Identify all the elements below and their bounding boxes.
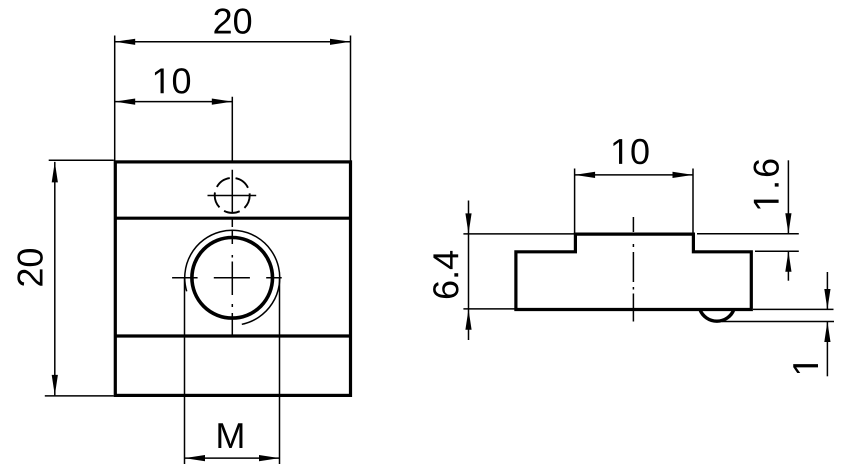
arrowhead bottom (pointing up) xyxy=(465,309,471,330)
extension line top xyxy=(49,159,114,161)
extension line bottom xyxy=(722,321,834,323)
dimension line upper xyxy=(787,160,789,233)
dimension M (thread size) xyxy=(185,278,280,464)
arrowhead upper (pointing down) xyxy=(785,213,791,234)
label 10 xyxy=(155,68,190,93)
hidden ball hole (dashed circle) xyxy=(215,178,250,213)
spring ball protrusion xyxy=(700,310,734,322)
dimension line xyxy=(115,41,351,43)
label 20 xyxy=(17,249,42,286)
horizontal centerline of thread hole xyxy=(172,277,282,279)
thread minor-diameter circle xyxy=(192,237,273,318)
dimension 20 (left height) xyxy=(17,160,113,396)
dimension line xyxy=(468,201,470,341)
extension line right xyxy=(350,36,352,161)
arrowhead lower (pointing up) xyxy=(785,251,791,272)
extension line left xyxy=(114,36,116,161)
arrowhead right xyxy=(673,172,694,178)
dimension line lower xyxy=(787,251,789,281)
arrowhead left xyxy=(115,39,136,45)
T-nut profile outline xyxy=(516,234,751,309)
thread major-diameter arc xyxy=(185,230,280,324)
dimension 20 (top width) xyxy=(115,8,351,160)
label 10 xyxy=(613,139,648,164)
dimension 10 (hole offset) xyxy=(115,68,233,105)
extension line right xyxy=(279,278,281,464)
label 1 xyxy=(793,364,818,373)
arrowhead right xyxy=(330,39,351,45)
dimension line xyxy=(115,101,233,103)
upper slot shoulder edge xyxy=(115,217,350,220)
extension line left xyxy=(184,278,186,464)
arrowhead left xyxy=(575,172,596,178)
extension line top xyxy=(463,233,574,235)
dimension line xyxy=(575,174,693,176)
extension line top xyxy=(697,233,799,235)
lower slot shoulder edge xyxy=(115,334,350,337)
arrowhead top (pointing down) xyxy=(465,213,471,234)
arrowhead left xyxy=(115,99,136,105)
dimension 6.4 (total height) xyxy=(433,201,574,341)
extension line left xyxy=(574,169,576,234)
label 1.6 xyxy=(753,159,778,208)
dimension line xyxy=(185,457,280,459)
dimension 10 (boss width) xyxy=(575,139,693,234)
extension line bottom xyxy=(463,308,515,310)
arrowhead left xyxy=(185,455,206,461)
horizontal centerline of ball hole xyxy=(208,195,257,197)
arrowhead right xyxy=(259,455,280,461)
dimension line xyxy=(54,162,56,396)
dimension 1.6 (boss height) xyxy=(697,159,799,280)
arrowhead upper (pointing down) xyxy=(824,289,830,310)
arrowhead lower (pointing up) xyxy=(824,322,830,343)
extension line top xyxy=(753,308,834,310)
extension line right xyxy=(692,169,694,234)
label 20 xyxy=(214,8,251,33)
dimension 1 (ball protrusion) xyxy=(722,272,834,376)
extension line bottom xyxy=(45,395,114,397)
dimension line lower xyxy=(826,322,828,377)
arrowhead bottom xyxy=(52,375,58,396)
vertical centerline of side view xyxy=(632,217,634,322)
arrowhead top xyxy=(52,162,58,183)
label 6.4 xyxy=(433,251,458,298)
dimension line upper xyxy=(826,272,828,310)
nut body outline (20x20 square) xyxy=(115,162,350,396)
vertical centerline of plan view xyxy=(231,97,233,336)
arrowhead right xyxy=(212,99,233,105)
extension line bottom xyxy=(755,250,799,252)
label M xyxy=(218,423,242,448)
